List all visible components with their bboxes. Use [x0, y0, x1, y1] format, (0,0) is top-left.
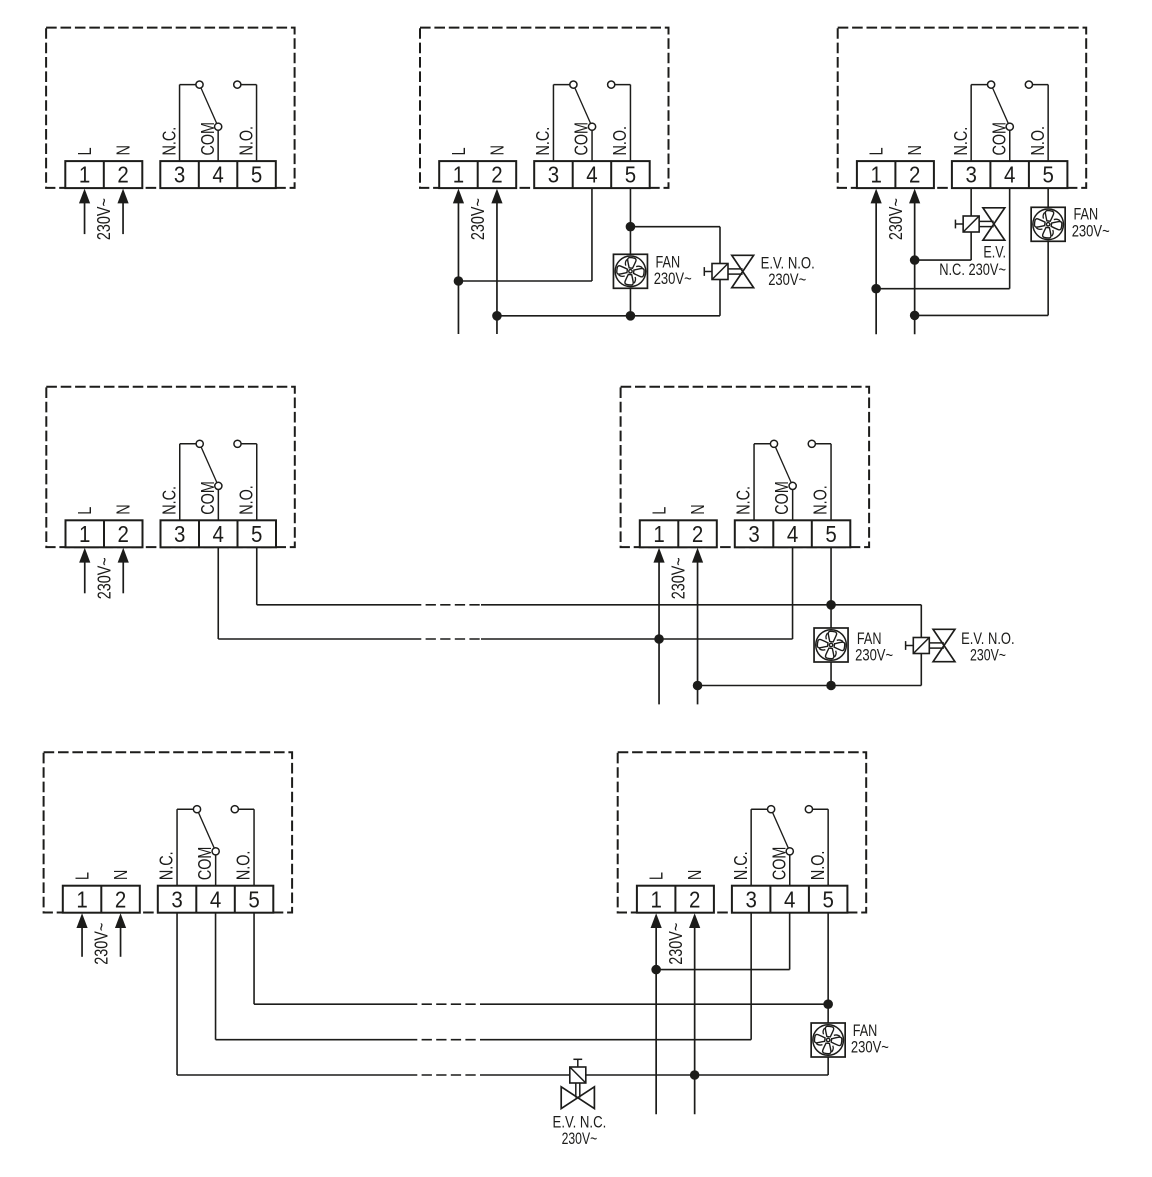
svg-text:5: 5: [1042, 162, 1053, 188]
svg-text:2: 2: [689, 886, 700, 912]
long wire break (dashed) COM line: [411, 638, 481, 640]
svg-text:FAN: FAN: [656, 254, 681, 272]
svg-text:N.O.: N.O.: [610, 126, 630, 156]
terminal block L-N (TH1): [65, 161, 142, 188]
wire relay N.O. contact to terminal 5 (TH1): [237, 85, 256, 162]
relay common contact (TH1): [215, 123, 222, 130]
svg-text:1: 1: [79, 521, 90, 547]
solenoid valve E.V. N.O. (TH2) symbol: [704, 255, 753, 287]
svg-text:N: N: [688, 504, 708, 515]
svg-text:1: 1: [79, 162, 90, 188]
relay N.O. contact (TH5): [808, 440, 815, 447]
solenoid valve E.V. N.O. (TH5) symbol: [906, 629, 955, 661]
supply arrow into L terminal 1 (TH2): [453, 189, 464, 334]
svg-text:3: 3: [548, 162, 559, 188]
svg-text:N: N: [685, 870, 705, 881]
relay N.C. contact (TH3): [988, 81, 995, 88]
svg-text:230V~: 230V~: [654, 270, 692, 288]
wire terminal 4 COM drop (TH3): [1009, 188, 1011, 289]
long wire TH4 COM to TH5 L, solid part 2: [481, 638, 793, 640]
svg-text:FAN: FAN: [853, 1022, 878, 1040]
svg-text:1: 1: [650, 886, 661, 912]
load label FAN 230V~ (TH2): [654, 254, 692, 289]
fan load FAN (TH5) (FAN 230V~) symbol: [814, 628, 848, 662]
thermostat TH4 enclosure (dashed): [46, 387, 294, 547]
junction FAN/N return (TH2): [626, 311, 636, 321]
svg-text:1: 1: [653, 521, 664, 547]
svg-text:FAN: FAN: [1074, 206, 1099, 224]
relay common contact (TH6): [212, 848, 219, 855]
terminal block 3-4-5 (TH7): [732, 886, 848, 913]
wire COM to L junction (TH3): [876, 288, 1010, 290]
svg-text:N.C. 230V~: N.C. 230V~: [939, 261, 1006, 279]
wire relay N.C. contact to terminal 3 (TH4): [180, 444, 200, 521]
terminal block L-N (TH5): [640, 520, 717, 547]
junction TH5 terminal5/long line: [826, 600, 836, 610]
relay N.C. contact (TH4): [196, 440, 203, 447]
svg-text:N: N: [114, 504, 134, 515]
svg-text:COM: COM: [772, 481, 792, 515]
wire relay N.C. contact to terminal 3 (TH5): [754, 444, 774, 521]
svg-text:3: 3: [174, 162, 185, 188]
svg-text:1: 1: [870, 162, 881, 188]
svg-text:4: 4: [210, 886, 222, 912]
relay N.O. contact (TH1): [234, 81, 241, 88]
svg-text:E.V. N.O.: E.V. N.O.: [961, 630, 1015, 648]
terminal block L-N (TH6): [63, 886, 140, 913]
junction TH5 FAN bottom: [826, 681, 836, 691]
supply arrow into N terminal 2 (TH7): [689, 913, 700, 1114]
svg-text:1: 1: [76, 886, 87, 912]
relay switch arm (TH6): [197, 809, 216, 851]
wire relay N.O. contact to terminal 5 (TH7): [809, 809, 828, 886]
wire relay common to terminal 4 (TH7): [789, 851, 791, 885]
terminal block 3-4-5 (TH3): [952, 161, 1068, 188]
wire N return line (TH5): [698, 685, 922, 687]
svg-text:N.O.: N.O.: [236, 126, 256, 156]
svg-text:N.O.: N.O.: [1028, 126, 1048, 156]
svg-text:5: 5: [251, 521, 262, 547]
junction terminal5/EV branch (TH2): [626, 222, 636, 232]
wire relay common to terminal 4 (TH4): [217, 486, 219, 520]
wire TH5 terminal 5 through FAN: [830, 547, 832, 685]
svg-text:L: L: [649, 507, 669, 515]
relay common contact (TH3): [1006, 123, 1013, 130]
wire relay N.C. contact to terminal 3 (TH3): [971, 85, 991, 162]
svg-text:L: L: [75, 147, 95, 155]
fan load FAN (TH7) (FAN 230V~) symbol: [811, 1023, 845, 1057]
svg-text:230V~: 230V~: [768, 271, 806, 289]
wire TH7 L to COM line: [656, 969, 790, 971]
terminal block L-N (TH3): [857, 161, 934, 188]
long wire TH6 terminal3 via EV to TH7, solid part 1: [177, 1074, 407, 1076]
wire terminal 4 drop (TH4): [217, 547, 219, 639]
wire relay N.C. contact to terminal 3 (TH6): [177, 809, 197, 886]
svg-text:230V~: 230V~: [970, 647, 1006, 665]
svg-text:230V~: 230V~: [855, 647, 893, 665]
relay common contact (TH7): [786, 848, 793, 855]
wire terminal 5 through FAN (TH3): [1047, 188, 1049, 315]
wire relay N.C. contact to terminal 3 (TH2): [553, 85, 573, 162]
long wire break (dashed) N.C. line bottom row: [407, 1074, 486, 1076]
wire FAN to N junction (TH3): [915, 314, 1049, 316]
junction TH5 N return: [693, 681, 703, 691]
long wire TH6 COM to TH7 terminal3, solid part 1: [216, 1039, 407, 1041]
svg-text:COM: COM: [195, 847, 215, 881]
supply arrow into L terminal 1 (TH6): [76, 913, 87, 957]
junction TH7 N: [690, 1070, 700, 1080]
wire relay N.O. contact to terminal 5 (TH5): [812, 444, 831, 521]
svg-text:L: L: [75, 507, 95, 515]
svg-text:2: 2: [692, 521, 703, 547]
svg-text:230V~: 230V~: [669, 557, 689, 599]
svg-text:E.V.: E.V.: [983, 244, 1006, 262]
svg-text:N.C.: N.C.: [159, 127, 179, 156]
svg-text:4: 4: [787, 521, 799, 547]
relay common contact (TH2): [588, 123, 595, 130]
svg-text:E.V. N.C.: E.V. N.C.: [553, 1113, 607, 1131]
solenoid valve E.V. N.C. (TH3) symbol: [955, 208, 1004, 240]
supply arrow into N terminal 2 (TH4): [118, 548, 129, 594]
relay N.O. contact (TH3): [1025, 81, 1032, 88]
relay switch arm (TH4): [200, 444, 219, 486]
svg-text:E.V. N.O.: E.V. N.O.: [761, 255, 815, 273]
long wire TH6 terminal3 via EV to TH7, solid part 2: [486, 1074, 828, 1076]
svg-text:230V~: 230V~: [94, 557, 114, 599]
svg-text:5: 5: [251, 162, 262, 188]
svg-text:5: 5: [248, 886, 259, 912]
long wire TH4 terminal5 to TH5 fan line, solid part 2: [481, 604, 921, 606]
wire EV to N junction (TH3): [915, 259, 972, 261]
svg-text:COM: COM: [572, 122, 592, 156]
svg-text:230V~: 230V~: [851, 1039, 889, 1057]
relay switch arm (TH5): [774, 444, 793, 486]
relay N.O. contact (TH7): [805, 806, 812, 813]
supply arrow into L terminal 1 (TH4): [79, 548, 90, 594]
long wire TH6 terminal5 to TH7 fan line, solid part 2: [486, 1003, 828, 1005]
supply arrow into N terminal 2 (TH1): [117, 189, 128, 235]
supply arrow into L terminal 1 (TH7): [651, 913, 662, 1114]
load label FAN 230V~ (TH3): [1072, 206, 1110, 241]
svg-text:2: 2: [115, 886, 126, 912]
wire terminal 5 drop (TH6): [253, 913, 255, 1005]
thermostat TH3 enclosure (dashed): [838, 28, 1086, 188]
relay switch arm (TH1): [200, 85, 219, 127]
svg-text:N: N: [113, 145, 133, 156]
long wire break (dashed) N.O. line bottom row: [407, 1003, 486, 1005]
load label FAN 230V~ (TH7): [851, 1022, 889, 1057]
relay N.C. contact (TH1): [196, 81, 203, 88]
svg-text:230V~: 230V~: [92, 923, 112, 965]
wire terminal 3 drop (TH6): [176, 913, 178, 1075]
junction L-COM (TH3): [871, 284, 881, 294]
long wire TH4 terminal5 to TH5 fan line, solid part 1: [257, 604, 411, 606]
svg-text:3: 3: [171, 886, 182, 912]
svg-text:N: N: [905, 145, 925, 156]
svg-text:230V~: 230V~: [94, 198, 114, 240]
thermostat TH7 enclosure (dashed): [618, 752, 867, 912]
terminal block L-N (TH2): [439, 161, 516, 188]
svg-text:1: 1: [453, 162, 464, 188]
long wire TH4 COM to TH5 L, solid part 1: [218, 638, 411, 640]
relay N.C. contact (TH6): [193, 806, 200, 813]
thermostat TH1 enclosure (dashed): [46, 28, 295, 188]
terminal block 3-4-5 (TH1): [160, 161, 275, 188]
thermostat TH2 enclosure (dashed): [420, 28, 669, 188]
svg-text:4: 4: [586, 162, 598, 188]
wire relay N.O. contact to terminal 5 (TH6): [235, 809, 254, 886]
svg-text:N.C.: N.C.: [731, 851, 751, 880]
supply arrow into N terminal 2 (TH3): [909, 189, 920, 335]
supply arrow into L terminal 1 (TH3): [871, 189, 882, 335]
wire relay common to terminal 4 (TH2): [591, 127, 593, 161]
relay N.O. contact (TH4): [234, 440, 241, 447]
svg-text:3: 3: [965, 162, 976, 188]
svg-text:N: N: [111, 870, 131, 881]
supply arrow into L terminal 1 (TH5): [653, 548, 664, 705]
wire N line to loads (TH2): [497, 315, 720, 317]
fan load FAN (TH3) (FAN 230V~) symbol: [1031, 207, 1065, 241]
solenoid valve E.V. N.C. (bottom row) symbol: [561, 1059, 594, 1108]
svg-text:L: L: [449, 147, 469, 155]
relay switch arm (TH2): [573, 85, 592, 127]
wire terminal 4 COM drop (TH2): [591, 188, 593, 281]
junction TH7 L: [651, 965, 661, 975]
load label FAN 230V~ (TH5): [855, 630, 893, 665]
wire relay N.C. contact to terminal 3 (TH1): [180, 85, 200, 162]
terminal block 3-4-5 (TH4): [161, 520, 277, 547]
svg-text:N.C.: N.C.: [157, 851, 177, 880]
thermostat TH5 enclosure (dashed): [621, 387, 870, 547]
terminal block 3-4-5 (TH6): [158, 886, 273, 913]
svg-text:FAN: FAN: [857, 630, 882, 648]
wire relay N.O. contact to terminal 5 (TH3): [1029, 85, 1048, 162]
wire EV branch vertical (TH5): [920, 605, 922, 686]
supply arrow into N terminal 2 (TH6): [115, 913, 126, 957]
long wire break (dashed) N.O. line: [411, 604, 481, 606]
svg-text:COM: COM: [198, 481, 218, 515]
terminal block 3-4-5 (TH2): [534, 161, 650, 188]
junction TH7 terminal5/long line: [823, 999, 833, 1009]
relay switch arm (TH7): [771, 809, 790, 851]
relay N.C. contact (TH5): [770, 440, 777, 447]
wire EV branch vertical (TH2): [719, 227, 721, 316]
wire relay common to terminal 4 (TH6): [215, 851, 217, 885]
svg-text:4: 4: [213, 521, 225, 547]
wire terminal 5 drop (TH4): [256, 547, 258, 605]
svg-text:N.O.: N.O.: [808, 851, 828, 881]
svg-text:230V~: 230V~: [1072, 223, 1110, 241]
long wire TH6 COM to TH7 terminal3, solid part 2: [486, 1039, 751, 1041]
wire TH5 terminal 4 drop: [792, 547, 794, 639]
terminal block L-N (TH4): [66, 520, 143, 547]
wire terminal 3 through EV (TH3): [970, 188, 972, 260]
wire relay common to terminal 4 (TH5): [792, 486, 794, 520]
svg-text:2: 2: [117, 162, 128, 188]
svg-text:L: L: [867, 147, 887, 155]
wire relay N.C. contact to terminal 3 (TH7): [751, 809, 771, 886]
junction N-EV (TH3): [910, 255, 920, 265]
relay switch arm (TH3): [991, 85, 1010, 127]
svg-text:5: 5: [825, 521, 836, 547]
load label E.V. N.C. 230V~ (TH3): [939, 244, 1006, 279]
svg-text:L: L: [647, 872, 667, 880]
svg-text:N.O.: N.O.: [811, 485, 831, 515]
svg-text:4: 4: [784, 886, 796, 912]
load label E.V. N.O. 230V~ (TH2): [761, 255, 815, 290]
svg-text:230V~: 230V~: [468, 198, 488, 240]
svg-text:2: 2: [118, 521, 129, 547]
relay N.C. contact (TH7): [768, 806, 775, 813]
relay N.O. contact (TH2): [608, 81, 615, 88]
junction N-FAN (TH3): [910, 311, 920, 321]
junction TH5 L - COM line: [654, 634, 664, 644]
relay common contact (TH4): [215, 482, 222, 489]
wire terminal 5 to FAN and EV (TH2): [629, 188, 631, 316]
svg-text:230V~: 230V~: [886, 198, 906, 240]
svg-text:2: 2: [909, 162, 920, 188]
wire relay N.O. contact to terminal 5 (TH4): [238, 444, 257, 521]
terminal block L-N (TH7): [637, 886, 714, 913]
svg-text:4: 4: [212, 162, 224, 188]
svg-text:230V~: 230V~: [562, 1130, 598, 1148]
svg-text:N.O.: N.O.: [236, 485, 256, 515]
wire relay N.O. contact to terminal 5 (TH2): [611, 85, 630, 162]
svg-text:N.C.: N.C.: [533, 127, 553, 156]
svg-text:3: 3: [748, 521, 759, 547]
svg-text:230V~: 230V~: [666, 923, 686, 965]
svg-text:N.C.: N.C.: [159, 486, 179, 515]
wire EV branch top (TH2): [630, 226, 720, 228]
long wire break (dashed) COM line bottom row: [407, 1039, 486, 1041]
svg-text:COM: COM: [198, 122, 218, 156]
wire relay common to terminal 4 (TH1): [217, 127, 219, 161]
wire L line to COM junction (TH2): [458, 280, 592, 282]
svg-text:2: 2: [491, 162, 502, 188]
svg-text:N.O.: N.O.: [234, 851, 254, 881]
svg-text:4: 4: [1004, 162, 1016, 188]
long wire TH6 terminal5 to TH7 fan line, solid part 1: [254, 1003, 407, 1005]
svg-text:N.C.: N.C.: [951, 127, 971, 156]
svg-text:COM: COM: [769, 847, 789, 881]
wire TH7 terminal 5 through FAN: [827, 912, 829, 1075]
wire TH7 terminal 4 drop: [789, 912, 791, 969]
thermostat TH6 enclosure (dashed): [44, 752, 293, 912]
svg-text:L: L: [72, 872, 92, 880]
wire TH7 terminal 3 riser: [750, 912, 752, 1039]
load label E.V. N.C. 230V~ (bottom row): [553, 1113, 607, 1148]
fan load FAN (TH2) (FAN 230V~) symbol: [613, 254, 647, 288]
wire relay common to terminal 4 (TH3): [1009, 127, 1011, 161]
relay N.C. contact (TH2): [570, 81, 577, 88]
svg-text:N: N: [487, 145, 507, 155]
supply arrow into N terminal 2 (TH2): [491, 189, 502, 334]
terminal block 3-4-5 (TH5): [735, 520, 851, 547]
svg-text:3: 3: [745, 886, 756, 912]
supply arrow into N terminal 2 (TH5): [692, 548, 703, 705]
wire terminal 4 drop (TH6): [215, 913, 217, 1040]
svg-text:5: 5: [822, 886, 833, 912]
load label E.V. N.O. 230V~ (TH5): [961, 630, 1015, 665]
relay N.O. contact (TH6): [231, 806, 238, 813]
junction N (TH2): [492, 311, 502, 321]
svg-text:N.C.: N.C.: [734, 486, 754, 515]
supply arrow into L terminal 1 (TH1): [79, 189, 90, 235]
relay common contact (TH5): [789, 482, 796, 489]
junction L-COM (TH2): [454, 276, 464, 286]
svg-text:3: 3: [174, 521, 185, 547]
svg-text:COM: COM: [989, 122, 1009, 156]
svg-text:5: 5: [625, 162, 636, 188]
